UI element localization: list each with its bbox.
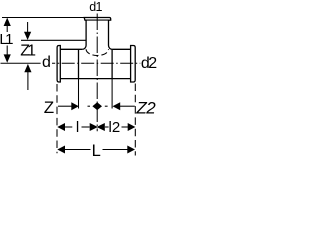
L left-pointing arrowhead xyxy=(57,146,65,154)
svg-text:L: L xyxy=(92,142,101,160)
svg-text:d2: d2 xyxy=(141,55,157,72)
svg-text:Z2: Z2 xyxy=(135,98,156,117)
L1 down arrowhead xyxy=(4,54,11,62)
l left shaft (row2) xyxy=(65,126,73,128)
L1 lower arrow shaft xyxy=(6,46,8,56)
body top line left segment xyxy=(60,48,82,50)
right end extension line (dashed) xyxy=(134,84,136,156)
left press bead xyxy=(57,46,60,83)
L1 up arrowhead xyxy=(4,18,11,26)
l2 right shaft (row2) xyxy=(122,126,129,128)
left depth extension below body xyxy=(78,79,80,109)
row1 center diamond (Z / Z2 shared arrow) xyxy=(92,102,102,110)
Z1 extension line (branch socket depth) xyxy=(21,39,86,41)
centerlines xyxy=(1,14,141,132)
dimension lines xyxy=(2,18,135,156)
Z2 left-pointing arrowhead xyxy=(113,102,121,110)
svg-text:l: l xyxy=(76,119,79,136)
branch outline: left fillet, left wall, flange, right wall, right fillet xyxy=(82,18,112,50)
svg-text:l2: l2 xyxy=(109,119,121,136)
Z right-pointing arrowhead xyxy=(71,102,79,110)
svg-text:Z: Z xyxy=(44,98,54,117)
body bottom line xyxy=(60,78,130,80)
l2 left stub (row2) xyxy=(105,126,109,128)
L right shaft (row3) xyxy=(103,149,128,151)
right depth extension below body xyxy=(111,79,113,109)
Z1 down arrowhead xyxy=(24,32,31,40)
tee fitting body xyxy=(57,18,135,83)
main horizontal centerline right of d label xyxy=(52,62,140,64)
branch flange bottom edge xyxy=(85,19,111,21)
top extension line (branch end) xyxy=(2,17,84,19)
l left-pointing arrowhead xyxy=(57,123,65,131)
right press bead xyxy=(131,46,136,83)
center pair right stub (row1) xyxy=(105,105,108,107)
L left shaft (row3) xyxy=(65,149,91,151)
l2 left-pointing arrowhead xyxy=(97,123,105,131)
l right shaft (row2) xyxy=(82,126,90,128)
l2 right-pointing arrowhead xyxy=(128,123,136,131)
main horizontal centerline left of d label xyxy=(1,62,41,64)
Z1 lower arrow shaft xyxy=(27,72,29,91)
left end extension line (dashed) xyxy=(56,84,58,153)
Z1 up arrowhead xyxy=(24,64,31,72)
branch vertical centerline xyxy=(96,14,98,132)
body top line right segment xyxy=(112,48,131,50)
Z2 arrow shaft xyxy=(120,105,135,107)
center pair left stub (row1) xyxy=(88,105,91,107)
Z arrow shaft xyxy=(58,105,72,107)
right socket depth line xyxy=(111,49,113,78)
svg-text:d: d xyxy=(42,54,51,71)
L right-pointing arrowhead xyxy=(127,146,135,154)
dashed branch bore arc xyxy=(86,49,108,55)
l right-pointing arrowhead xyxy=(90,123,98,131)
svg-text:d1: d1 xyxy=(89,0,102,14)
left socket depth line xyxy=(78,49,80,78)
Z1 upper arrow shaft xyxy=(27,22,29,32)
arrowheads xyxy=(4,18,136,154)
L1 upper arrow shaft xyxy=(6,26,8,33)
